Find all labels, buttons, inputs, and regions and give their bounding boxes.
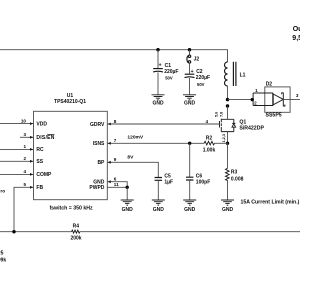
wire DIS/EN stub	[20, 136, 34, 138]
svg-text:5: 5	[23, 182, 26, 187]
wire SS	[0, 160, 34, 162]
svg-text:1: 1	[23, 144, 26, 149]
svg-text:1.00k: 1.00k	[203, 147, 216, 153]
svg-text:ro: ro	[0, 188, 5, 194]
wire R3 to gnd	[227, 180, 229, 200]
svg-text:3: 3	[23, 132, 26, 137]
node switch	[226, 98, 229, 101]
svg-text:R5: R5	[0, 251, 4, 257]
ground C6	[183, 200, 196, 213]
svg-text:7,8: 7,8	[219, 112, 223, 117]
capacitor C1	[153, 63, 178, 81]
wire J2 lead	[189, 50, 191, 55]
svg-text:50V: 50V	[165, 76, 173, 81]
resistor R2	[203, 135, 216, 153]
wire FB	[14, 187, 34, 231]
ground C2	[183, 95, 196, 107]
svg-text:0.008: 0.008	[231, 176, 244, 182]
svg-text:15A Current Limit (min.): 15A Current Limit (min.)	[241, 199, 300, 205]
svg-text:120mV: 120mV	[127, 135, 144, 141]
diode D2	[253, 82, 300, 119]
svg-text:4: 4	[205, 119, 208, 124]
svg-text:8V: 8V	[127, 154, 134, 160]
wire VIN top rail	[0, 50, 228, 62]
resistor R3	[226, 168, 244, 182]
svg-text:SS5P5: SS5P5	[266, 113, 282, 119]
svg-text:1: 1	[255, 88, 258, 93]
wire C6 to gnd	[189, 180, 191, 200]
op-amp U1	[34, 93, 108, 211]
svg-text:2: 2	[254, 101, 257, 106]
wire C1 lead	[157, 50, 159, 68]
pin arrow VDD	[30, 122, 33, 125]
pin arrow FB	[30, 186, 33, 189]
wire VDD	[0, 123, 34, 125]
svg-text:GND: GND	[184, 207, 196, 213]
wire C1 to gnd	[157, 72, 159, 94]
svg-text:+: +	[159, 63, 162, 69]
svg-text:GDRV: GDRV	[90, 122, 105, 128]
svg-text:10: 10	[21, 118, 27, 123]
wire COMP	[0, 173, 34, 175]
svg-text:200k: 200k	[70, 235, 81, 241]
capacitor C2	[185, 69, 211, 87]
node C6 tap	[188, 142, 191, 145]
svg-text:3: 3	[296, 93, 299, 98]
svg-text:9: 9	[114, 157, 117, 162]
svg-text:GND: GND	[222, 207, 234, 213]
svg-text:RC: RC	[36, 147, 44, 153]
node FB junction	[12, 230, 15, 233]
wire BP net	[107, 162, 158, 177]
svg-text:7: 7	[114, 138, 117, 143]
svg-text:5,6: 5,6	[214, 112, 218, 117]
node C1 tap	[156, 48, 159, 51]
inductor L1	[225, 62, 246, 86]
svg-text:DIS/EN: DIS/EN	[36, 135, 54, 141]
svg-text:SS: SS	[36, 159, 43, 165]
wire J2 to C2	[189, 63, 191, 74]
pin arrow DIS	[30, 136, 33, 139]
capacitor C5	[155, 173, 174, 185]
resistor R4	[70, 224, 81, 242]
svg-text:100pF: 100pF	[196, 179, 210, 185]
svg-text:1,2,3: 1,2,3	[222, 134, 226, 142]
wire L1 to switch node	[227, 86, 229, 100]
svg-text:ISNS: ISNS	[93, 141, 105, 147]
node Q1 source	[226, 142, 229, 145]
ground C5	[152, 200, 165, 213]
svg-text:GND: GND	[152, 100, 164, 106]
wire GDRV to gate	[107, 123, 219, 125]
wire GND pin net	[107, 182, 127, 188]
svg-text:COMP: COMP	[36, 172, 52, 178]
ground C1	[152, 95, 165, 107]
wire PWPD net	[107, 186, 127, 188]
svg-text:6: 6	[114, 177, 117, 182]
svg-text:TPS40210-Q1: TPS40210-Q1	[54, 99, 86, 105]
node Q1 drain	[226, 104, 229, 107]
pin arrow GDRV	[108, 123, 111, 126]
node J2 tap	[188, 48, 191, 51]
svg-text:1µF: 1µF	[164, 179, 173, 185]
svg-text:220µF: 220µF	[164, 69, 178, 75]
svg-text:11: 11	[114, 182, 119, 187]
svg-text:4.99k: 4.99k	[0, 257, 6, 263]
wire switch to D2	[228, 99, 253, 101]
ground R3	[221, 200, 234, 213]
svg-text:Ou: Ou	[293, 26, 300, 33]
pin arrow BP	[108, 161, 111, 164]
svg-text:BP: BP	[97, 160, 105, 166]
wire C5 to gnd	[157, 180, 159, 200]
wire feedback bottom rail	[0, 231, 300, 233]
transistor Q1	[220, 119, 265, 132]
svg-text:PWPD: PWPD	[89, 185, 104, 191]
svg-text:SiR422DP: SiR422DP	[239, 126, 264, 132]
svg-text:8: 8	[114, 119, 117, 124]
wire C6 lead	[189, 143, 191, 177]
svg-text:fswitch = 350 kHz: fswitch = 350 kHz	[49, 205, 93, 211]
pin arrow RC	[30, 148, 33, 151]
svg-text:50V: 50V	[197, 82, 205, 87]
node D2 anode	[251, 98, 254, 101]
pin arrow GND	[108, 180, 111, 183]
svg-text:GND: GND	[122, 207, 134, 213]
wire Q1 source	[227, 132, 229, 144]
svg-text:R2: R2	[206, 135, 213, 141]
svg-text:220µF: 220µF	[196, 75, 210, 81]
svg-text:+: +	[191, 69, 194, 75]
svg-text:9,5: 9,5	[292, 35, 300, 42]
wire C2 to gnd	[189, 78, 191, 95]
svg-text:GND: GND	[153, 207, 165, 213]
pin arrow SS	[30, 160, 33, 163]
node PWPD junction	[126, 186, 129, 189]
wire ISNS net	[107, 142, 204, 144]
svg-text:FB: FB	[36, 185, 43, 191]
svg-text:4: 4	[23, 169, 26, 174]
ground U1	[121, 200, 134, 213]
svg-text:J2: J2	[194, 56, 200, 62]
wire R3 lead	[227, 143, 229, 168]
svg-text:2: 2	[23, 156, 26, 161]
svg-text:VDD: VDD	[36, 121, 47, 127]
svg-text:L1: L1	[240, 73, 246, 79]
svg-text:GND: GND	[184, 100, 196, 106]
svg-text:R4: R4	[73, 224, 80, 230]
jumper J2	[187, 55, 199, 63]
wire drain stub	[227, 106, 229, 119]
wire RC	[0, 148, 34, 150]
svg-text:R3: R3	[231, 170, 238, 176]
pin arrow ISNS	[108, 142, 111, 145]
wire R2 to Q1 source	[215, 142, 228, 144]
pin arrow COMP	[30, 173, 33, 176]
capacitor C6	[186, 173, 210, 185]
wire PWPD to gnd	[126, 187, 128, 200]
